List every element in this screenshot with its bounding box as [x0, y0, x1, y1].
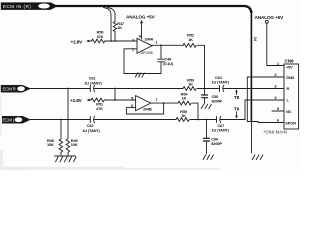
ground (C66) [203, 155, 213, 160]
svg-text:ECM IN (R): ECM IN (R) [3, 4, 31, 9]
junction [60, 119, 62, 121]
svg-text:1U (TANT): 1U (TANT) [212, 127, 230, 132]
wire GND pin2 [247, 77, 284, 123]
wire op1 output [152, 44, 183, 47]
wire [114, 32, 116, 42]
svg-text:47K: 47K [97, 34, 104, 39]
svg-text:204A: 204A [145, 37, 154, 42]
junction [67, 88, 69, 90]
wire tap from mid-line [114, 89, 116, 101]
resistor R48 10K (to ground) [59, 120, 62, 157]
junction [114, 88, 116, 90]
svg-text:ANALOG +5V: ANALOG +5V [255, 15, 285, 20]
wire bias to pin5 [104, 99, 135, 101]
junction [67, 119, 69, 121]
op-amp U1B uPC358 (204B) [131, 95, 158, 111]
resistor R49 10K (to ground) [66, 120, 69, 157]
junction [204, 88, 206, 90]
junction [138, 73, 140, 75]
op-amp U1A uPC358 (204A) [132, 34, 158, 55]
wire [198, 88, 220, 90]
svg-text:ECM L: ECM L [3, 118, 16, 123]
svg-text:10K: 10K [47, 142, 54, 147]
pin8 power wire [141, 23, 143, 39]
wire bottom line [27, 119, 90, 121]
svg-text:+2.8V: +2.8V [71, 39, 84, 44]
svg-text:1K: 1K [188, 82, 193, 87]
svg-text:R: R [287, 86, 290, 91]
svg-text:SPON: SPON [285, 120, 296, 125]
svg-text:8200P: 8200P [211, 141, 222, 146]
svg-text:UPC358: UPC358 [141, 51, 153, 55]
svg-text:ANALOG +5V: ANALOG +5V [126, 15, 156, 20]
svg-text:10K: 10K [71, 142, 78, 147]
wire op2 feedback (pin6 loop) [126, 103, 163, 114]
input tag J1 (top shielded input label) [1, 3, 58, 10]
svg-text:1K: 1K [117, 25, 122, 30]
svg-text:(0.1U): (0.1U) [163, 61, 174, 66]
capacitor C64 1U (TANT) series [220, 85, 285, 91]
svg-text:1U (TANT): 1U (TANT) [84, 80, 102, 85]
power arrow ANALOG +5V [140, 20, 143, 23]
svg-text:+5V: +5V [286, 65, 293, 70]
capacitor C61 1U (TANT) [90, 85, 183, 91]
junction [197, 119, 199, 121]
junction [251, 121, 253, 123]
wire +5V to pin1 [267, 23, 284, 65]
svg-text:47K: 47K [96, 106, 103, 111]
wire: cable drop (to R47) [108, 8, 116, 22]
input tag J2 (mid) [1, 85, 31, 92]
resistor R52 1K [183, 43, 196, 47]
svg-text:*CN9 MAIN: *CN9 MAIN [264, 130, 287, 135]
svg-text:8200P: 8200P [212, 99, 223, 104]
resistor R54 1K [178, 101, 191, 105]
junction [114, 40, 116, 42]
resistor R50 47K [92, 39, 105, 43]
svg-text:NC: NC [286, 109, 292, 114]
ground (C50) [201, 104, 211, 108]
resistor R55 1K (on L-line) [176, 118, 189, 122]
svg-text:1K: 1K [182, 96, 187, 101]
svg-text:GND: GND [286, 75, 295, 80]
wire op1 feedback (pin2 loop) [124, 49, 161, 74]
wire R52 to R-line [198, 45, 205, 88]
scan smudge bottom [0, 167, 125, 170]
wire to op-amp pin 3 [105, 40, 137, 42]
junction [114, 99, 116, 101]
svg-text:CN9: CN9 [285, 59, 294, 64]
resistor R53 1K (on R-line) [183, 87, 196, 91]
capacitor C49 0.1U (on feedback branch) [158, 45, 165, 73]
wire mid-line [30, 88, 90, 90]
input tag J3 (bottom) [1, 116, 31, 123]
svg-text:+2.8V: +2.8V [70, 98, 83, 103]
svg-text:T9: T9 [234, 106, 240, 111]
capacitor C67 1U (TANT) series [217, 116, 246, 122]
junction [110, 40, 112, 42]
junction [160, 44, 162, 46]
junction [163, 102, 165, 104]
wire down to bottom line [67, 89, 69, 120]
capacitor C66 8200P (shunt) [203, 120, 209, 154]
svg-text:1U (TANT): 1U (TANT) [82, 128, 100, 133]
shielded cable (thick wire) [56, 6, 251, 13]
wire R54 down to L-line [193, 103, 199, 119]
connector CN9 [274, 59, 298, 129]
ground (op1) [135, 73, 144, 77]
svg-text:204B: 204B [143, 106, 152, 111]
svg-text:1U (TANT): 1U (TANT) [212, 80, 230, 85]
resistor R51 47K [91, 98, 104, 102]
wire [191, 119, 217, 121]
svg-text:1K: 1K [181, 113, 186, 118]
resistor R47 (vertical) [113, 22, 116, 32]
wire op2 output [151, 102, 178, 104]
wire L-line up to pin4 [245, 100, 284, 120]
ground (R48/R49 common) [55, 156, 77, 162]
svg-text:T8: T8 [234, 95, 240, 100]
wire pin5 NC stub [272, 110, 284, 112]
wire: cable drop (signal) [104, 8, 112, 42]
wire cable shield to ground [251, 122, 253, 154]
paper background [0, 0, 300, 170]
ground (shield) [252, 155, 263, 160]
svg-text:1K: 1K [188, 37, 193, 42]
capacitor C62 1U (TANT) [90, 116, 176, 122]
svg-text:ECM R: ECM R [3, 87, 16, 92]
junction [206, 119, 208, 121]
capacitor C50 8200P (shunt) [204, 89, 206, 104]
